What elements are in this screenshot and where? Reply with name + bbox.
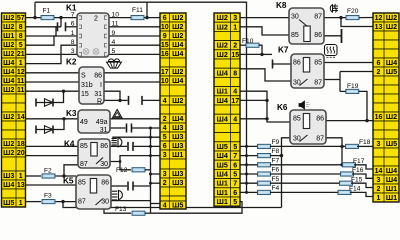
svg-text:K4: K4	[64, 140, 75, 149]
svg-text:R: R	[97, 99, 102, 106]
svg-text:5: 5	[233, 171, 237, 178]
svg-text:Ш2: Ш2	[172, 67, 183, 76]
svg-text:4: 4	[163, 98, 167, 105]
svg-text:13: 13	[17, 182, 25, 189]
svg-text:Ш2: Ш2	[3, 22, 14, 31]
svg-text:Ш4: Ш4	[217, 114, 228, 123]
svg-text:8: 8	[233, 70, 237, 77]
svg-text:8: 8	[71, 39, 75, 46]
svg-text:Ш4: Ш4	[217, 151, 228, 160]
svg-text:10: 10	[161, 24, 169, 31]
svg-text:Ш4: Ш4	[3, 180, 14, 189]
svg-text:Ш4: Ш4	[386, 175, 397, 184]
svg-text:Ш2: Ш2	[217, 50, 228, 59]
svg-text:Ш3: Ш3	[172, 169, 183, 178]
svg-text:1: 1	[71, 30, 75, 37]
svg-text:K5: K5	[63, 177, 74, 186]
svg-text:Ш5: Ш5	[3, 198, 14, 207]
svg-text:4: 4	[233, 116, 237, 123]
svg-text:F2: F2	[44, 167, 52, 174]
svg-text:Ш3: Ш3	[172, 132, 183, 141]
svg-text:49a: 49a	[96, 119, 108, 126]
svg-text:4: 4	[112, 39, 116, 46]
svg-text:14: 14	[17, 114, 25, 121]
svg-text:Ш1: Ш1	[217, 87, 228, 96]
svg-text:86: 86	[314, 32, 322, 39]
svg-text:F20: F20	[347, 8, 359, 15]
svg-text:3: 3	[377, 141, 381, 148]
svg-text:13: 13	[375, 24, 383, 31]
svg-text:I: I	[100, 82, 102, 89]
svg-text:3: 3	[377, 177, 381, 184]
svg-text:8: 8	[19, 33, 23, 40]
svg-text:4: 4	[163, 202, 167, 209]
svg-text:Ш5: Ш5	[217, 142, 228, 151]
svg-text:87: 87	[316, 136, 324, 143]
svg-text:1: 1	[19, 60, 23, 67]
svg-text:5: 5	[112, 48, 116, 55]
svg-text:F11: F11	[132, 7, 143, 14]
svg-text:K8: K8	[276, 1, 287, 10]
svg-text:15: 15	[81, 91, 89, 98]
svg-text:Ш2: Ш2	[172, 96, 183, 105]
svg-text:Ш2: Ш2	[3, 49, 14, 58]
svg-text:Ш1: Ш1	[217, 188, 228, 197]
svg-text:K2: K2	[66, 58, 77, 67]
svg-text:85: 85	[293, 116, 301, 123]
svg-text:11: 11	[112, 21, 119, 28]
svg-text:87: 87	[78, 199, 86, 206]
svg-text:3: 3	[163, 152, 167, 159]
svg-text:5: 5	[163, 134, 167, 141]
svg-text:9: 9	[112, 30, 116, 37]
svg-text:F9: F9	[272, 139, 280, 146]
svg-text:86: 86	[293, 60, 301, 67]
svg-text:K6: K6	[277, 103, 288, 112]
svg-text:Ш2: Ш2	[3, 148, 14, 157]
svg-text:Ш2: Ш2	[217, 13, 228, 22]
svg-text:F5: F5	[272, 176, 280, 183]
svg-text:31: 31	[100, 127, 108, 134]
svg-text:Ш2: Ш2	[386, 22, 397, 31]
svg-text:7: 7	[71, 11, 75, 18]
svg-text:S: S	[81, 73, 86, 80]
svg-text:6: 6	[377, 60, 381, 67]
svg-text:Ш1: Ш1	[3, 31, 14, 40]
svg-text:4: 4	[233, 89, 237, 96]
svg-text:6: 6	[233, 190, 237, 197]
svg-text:Ш4: Ш4	[217, 169, 228, 178]
svg-text:Ш4: Ш4	[172, 49, 183, 58]
svg-text:Ш4: Ш4	[172, 40, 183, 49]
svg-text:2: 2	[377, 186, 381, 193]
svg-text:Ш4: Ш4	[217, 68, 228, 77]
svg-text:Ш2: Ш2	[3, 40, 14, 49]
svg-text:1: 1	[233, 24, 237, 31]
svg-text:F7: F7	[272, 157, 280, 164]
svg-text:86: 86	[316, 116, 324, 123]
svg-text:Ш1: Ш1	[386, 193, 397, 202]
svg-text:F12: F12	[116, 167, 128, 174]
svg-text:Ш4: Ш4	[386, 166, 397, 175]
svg-text:57: 57	[17, 15, 25, 22]
svg-text:Ш2: Ш2	[386, 13, 397, 22]
svg-text:2: 2	[377, 69, 381, 76]
svg-text:18: 18	[17, 141, 25, 148]
svg-text:5: 5	[19, 42, 23, 49]
svg-text:F6: F6	[272, 167, 280, 174]
svg-text:Ш5: Ш5	[386, 139, 397, 148]
svg-text:4: 4	[163, 125, 167, 132]
svg-text:31: 31	[94, 91, 102, 98]
svg-text:8: 8	[19, 24, 23, 31]
svg-text:9: 9	[163, 33, 167, 40]
svg-text:5: 5	[233, 144, 237, 151]
svg-text:1: 1	[377, 195, 381, 202]
svg-text:6: 6	[233, 162, 237, 169]
svg-text:Ш2: Ш2	[217, 41, 228, 50]
svg-text:Ш4: Ш4	[3, 67, 14, 76]
svg-text:F16: F16	[352, 167, 364, 174]
svg-text:85: 85	[291, 32, 299, 39]
svg-text:Ш2: Ш2	[386, 112, 397, 121]
svg-text:86: 86	[101, 180, 109, 187]
svg-text:85: 85	[78, 180, 86, 187]
svg-text:6: 6	[163, 143, 167, 150]
svg-text:5: 5	[233, 199, 237, 206]
svg-text:85: 85	[80, 143, 88, 150]
svg-text:49: 49	[80, 119, 88, 126]
svg-text:30: 30	[291, 14, 299, 21]
svg-text:Ш3: Ш3	[172, 141, 183, 150]
svg-text:F19: F19	[347, 83, 359, 90]
svg-text:16: 16	[161, 51, 169, 58]
svg-text:Ш1: Ш1	[217, 197, 228, 206]
svg-text:11: 11	[17, 87, 25, 94]
svg-text:Ш1: Ш1	[172, 150, 183, 159]
svg-text:F10: F10	[242, 38, 254, 45]
svg-text:F1: F1	[43, 8, 51, 15]
svg-text:30: 30	[100, 161, 108, 168]
svg-text:6: 6	[163, 15, 167, 22]
svg-text:Ш3: Ш3	[172, 123, 183, 132]
svg-text:87: 87	[80, 161, 88, 168]
svg-text:Ш1: Ш1	[217, 179, 228, 188]
svg-text:Ш2: Ш2	[3, 112, 14, 121]
svg-text:Ш2: Ш2	[172, 13, 183, 22]
svg-text:K7: K7	[278, 46, 289, 55]
svg-text:Ш5: Ш5	[386, 67, 397, 76]
svg-text:87: 87	[314, 80, 322, 87]
svg-text:Ш4: Ш4	[3, 58, 14, 67]
svg-text:Ш3: Ш3	[172, 178, 183, 187]
svg-text:17: 17	[161, 69, 169, 76]
svg-text:15: 15	[161, 42, 169, 49]
svg-text:87: 87	[314, 14, 322, 21]
svg-text:F15: F15	[351, 176, 363, 183]
svg-text:Ш2: Ш2	[3, 13, 14, 22]
svg-text:2: 2	[94, 16, 98, 23]
svg-text:Ш4: Ш4	[172, 114, 183, 123]
svg-text:12: 12	[375, 15, 383, 22]
svg-text:3: 3	[71, 48, 75, 55]
svg-text:F14: F14	[349, 185, 361, 192]
svg-text:11: 11	[17, 78, 25, 85]
svg-text:10: 10	[112, 11, 120, 18]
svg-text:K3: K3	[66, 109, 77, 118]
svg-text:3: 3	[233, 15, 237, 22]
svg-text:21: 21	[17, 51, 25, 58]
svg-text:2: 2	[163, 180, 167, 187]
svg-text:86: 86	[94, 73, 102, 80]
svg-text:86: 86	[100, 143, 108, 150]
svg-text:Ш2: Ш2	[172, 22, 183, 31]
svg-text:85: 85	[314, 60, 322, 67]
svg-text:Ш2: Ш2	[3, 85, 14, 94]
svg-text:Ш4: Ш4	[386, 58, 397, 67]
svg-text:31b: 31b	[81, 82, 93, 89]
svg-text:Ш4: Ш4	[3, 76, 14, 85]
svg-text:Ш1: Ш1	[386, 184, 397, 193]
svg-text:10: 10	[161, 78, 169, 85]
svg-text:Ш2: Ш2	[3, 139, 14, 148]
svg-text:F4: F4	[272, 185, 280, 192]
svg-text:F8: F8	[272, 148, 280, 155]
svg-text:7: 7	[233, 153, 237, 160]
svg-text:Ш2: Ш2	[217, 22, 228, 31]
svg-text:Ш3: Ш3	[3, 171, 14, 180]
svg-text:6: 6	[71, 21, 75, 28]
svg-text:12: 12	[17, 69, 25, 76]
svg-text:Ш4: Ш4	[217, 96, 228, 105]
svg-text:14: 14	[375, 168, 383, 175]
svg-text:F18: F18	[359, 139, 371, 146]
svg-text:1: 1	[19, 173, 23, 180]
svg-text:16: 16	[375, 114, 383, 121]
svg-text:Ш2: Ш2	[172, 31, 183, 40]
svg-text:Ш5: Ш5	[217, 160, 228, 169]
svg-text:Ш5: Ш5	[172, 200, 183, 209]
svg-text:20: 20	[17, 150, 25, 157]
svg-text:3: 3	[163, 171, 167, 178]
svg-text:F17: F17	[353, 158, 365, 165]
svg-text:1: 1	[19, 200, 23, 207]
svg-text:2: 2	[233, 43, 237, 50]
svg-text:F3: F3	[44, 192, 52, 199]
svg-text:Ш4: Ш4	[172, 76, 183, 85]
svg-text:2: 2	[163, 116, 167, 123]
svg-text:F13: F13	[115, 206, 127, 213]
svg-text:7: 7	[233, 181, 237, 188]
svg-text:17: 17	[231, 98, 239, 105]
svg-text:15: 15	[231, 52, 239, 59]
